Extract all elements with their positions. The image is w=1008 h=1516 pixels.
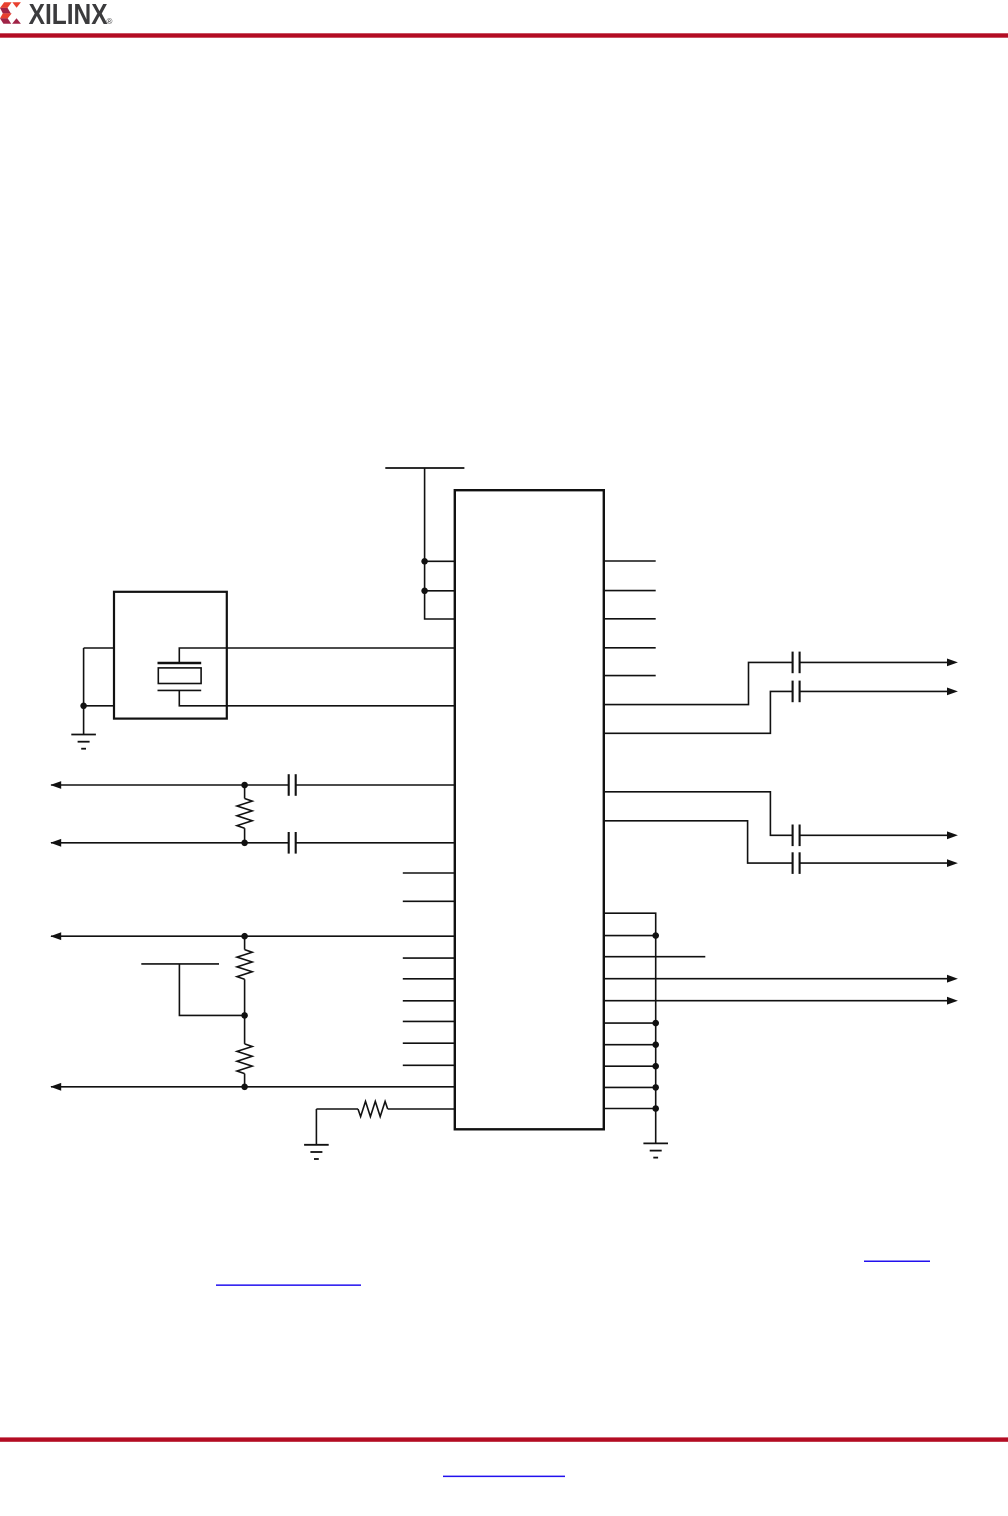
- resistor R1: [237, 785, 252, 843]
- capacitor C6: [793, 852, 800, 874]
- wire VCC vertical: [425, 468, 455, 619]
- VCC rail: [385, 467, 464, 469]
- wire data out A: [604, 975, 958, 983]
- IC U1: [455, 490, 604, 1129]
- junction bus 3: [652, 1041, 659, 1048]
- resistor R3: [237, 1015, 252, 1086]
- wire net stub right: [604, 956, 706, 958]
- wire bus stub 4: [604, 1065, 656, 1067]
- wire net label to node D: [179, 964, 244, 1016]
- junction node D: [241, 1012, 248, 1019]
- crystal Y1 bottom plate: [158, 689, 202, 691]
- wire osc left top: [84, 647, 114, 649]
- capacitor C5: [793, 825, 800, 847]
- junction VCC stub 2: [421, 588, 428, 595]
- wire R4 to ground: [315, 1109, 317, 1145]
- wire VCC stub 2: [425, 590, 455, 592]
- wire bus stub 3: [604, 1044, 656, 1046]
- wire VCC stub 1: [425, 560, 455, 562]
- wire TX out D: [604, 821, 958, 867]
- wire bus stub 5: [604, 1086, 656, 1088]
- left pin stub 1: [403, 872, 455, 874]
- left pin stub 2: [403, 900, 455, 902]
- svg-text:XILINX: XILINX: [29, 0, 109, 31]
- left pin stub 6: [403, 1020, 455, 1022]
- wire clock out B: [50, 839, 455, 847]
- capacitor C2: [289, 832, 296, 854]
- wire ground bus right: [604, 913, 656, 1143]
- wire bus stub 2: [604, 1022, 656, 1024]
- wire data out B: [604, 997, 958, 1005]
- junction bus 2: [652, 1020, 659, 1027]
- oscillator box X1: [114, 592, 227, 719]
- capacitor C1: [289, 774, 296, 796]
- junction bus 1: [652, 932, 659, 939]
- hyperlink underline right: [864, 1261, 930, 1263]
- junction bus 5: [652, 1084, 659, 1091]
- wire TX out A: [604, 659, 958, 705]
- hyperlink underline footer: [443, 1476, 565, 1478]
- junction osc bus: [80, 703, 87, 710]
- right pin stub 4: [604, 647, 656, 649]
- net label bar: [141, 963, 219, 965]
- capacitor C3: [793, 652, 800, 674]
- bottom red rule: [0, 1437, 1008, 1441]
- wire clock out A: [50, 781, 455, 789]
- top red rule: [0, 33, 1008, 37]
- crystal Y1 body: [158, 668, 201, 684]
- left pin stub 4: [403, 978, 455, 980]
- ground G3: [643, 1143, 668, 1157]
- junction bus 6: [652, 1105, 659, 1112]
- junction node B: [241, 840, 248, 847]
- wire bus stub 6: [604, 1108, 656, 1110]
- junction node A: [241, 782, 248, 789]
- wire serial out C: [50, 932, 455, 940]
- svg-text:®: ®: [107, 17, 113, 26]
- left pin stub 3: [403, 957, 455, 959]
- left pin stub 8: [403, 1064, 455, 1066]
- wire crystal top to IC: [179, 648, 455, 663]
- hyperlink underline left: [216, 1284, 361, 1286]
- wire osc left bus: [83, 648, 85, 735]
- junction bus 4: [652, 1063, 659, 1070]
- junction node C: [241, 933, 248, 940]
- capacitor C4: [793, 681, 800, 703]
- wire bus stub 1: [604, 935, 656, 937]
- Xilinx logo mark: [0, 2, 21, 24]
- right pin stub 1: [604, 560, 656, 562]
- wire crystal bottom to IC: [179, 690, 455, 705]
- junction node E: [241, 1084, 248, 1091]
- wire TX out B: [604, 688, 958, 734]
- junction VCC stub 1: [421, 558, 428, 565]
- resistor R4: [316, 1101, 454, 1116]
- right pin stub 5: [604, 675, 656, 677]
- crystal Y1 top plate: [158, 662, 202, 665]
- right pin stub 3: [604, 618, 656, 620]
- wire TX out C: [604, 792, 958, 839]
- resistor R2: [237, 936, 252, 1015]
- left pin stub 7: [403, 1042, 455, 1044]
- ground G1: [71, 735, 96, 749]
- wire serial out E: [50, 1083, 455, 1091]
- wire osc left bottom: [84, 705, 114, 707]
- ground G2: [304, 1145, 329, 1159]
- right pin stub 2: [604, 590, 656, 592]
- left pin stub 5: [403, 1000, 455, 1002]
